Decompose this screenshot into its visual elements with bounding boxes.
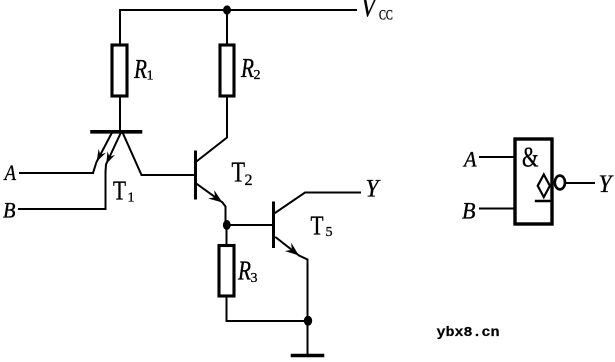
resistor R2 — [220, 45, 234, 96]
svg-text:V: V — [361, 0, 378, 23]
transistor T1 collector — [123, 134, 195, 176]
svg-text:R: R — [237, 256, 251, 286]
transistor T5 collector — [275, 193, 360, 214]
gate diamond underline — [536, 200, 551, 202]
svg-text:1: 1 — [128, 191, 135, 206]
svg-text:CC: CC — [379, 8, 393, 24]
transistor T1 emitter 1 — [93, 134, 112, 174]
svg-text:R: R — [133, 54, 147, 84]
svg-text:5: 5 — [326, 225, 333, 240]
svg-text:T: T — [232, 158, 246, 189]
resistor R3 — [219, 246, 234, 297]
wire R1 to T1 base — [119, 96, 121, 131]
svg-text:B: B — [462, 199, 476, 224]
svg-text:A: A — [462, 147, 477, 172]
svg-text:2: 2 — [254, 68, 261, 83]
wire gate output Y — [566, 182, 594, 184]
label T5 — [311, 211, 333, 241]
svg-text:B: B — [3, 197, 16, 222]
svg-text:1: 1 — [147, 69, 154, 84]
transistor T5 emitter — [276, 238, 308, 322]
wire junction to T5 base — [227, 224, 272, 226]
svg-text:T: T — [311, 211, 324, 241]
svg-text:A: A — [3, 160, 17, 185]
node junction bottom — [304, 316, 312, 326]
gate U1 NAND body — [515, 139, 552, 224]
svg-text:R: R — [240, 53, 254, 83]
node junction top — [223, 5, 231, 14]
label R2 — [240, 53, 260, 83]
wire R2 top lead — [226, 10, 228, 45]
svg-text:2: 2 — [245, 172, 253, 189]
wire gate input A — [480, 156, 513, 158]
transistor T1 base bar — [92, 130, 141, 134]
svg-text:T: T — [113, 176, 126, 206]
wire R3 bottom to ground rail — [227, 296, 309, 321]
label T1 — [113, 176, 135, 206]
transistor T1 emitter 2 — [106, 134, 121, 210]
svg-text:3: 3 — [251, 271, 258, 286]
resistor R1 — [112, 45, 127, 96]
wire gate input B — [480, 208, 513, 210]
transistor T2 base bar — [194, 152, 197, 198]
wire top rail Vcc — [120, 10, 356, 45]
label R3 — [237, 256, 257, 287]
svg-text:ybx8.cn: ybx8.cn — [437, 325, 500, 341]
transistor T5 base bar — [272, 203, 275, 247]
label R1 — [133, 54, 153, 84]
label Vcc — [361, 0, 393, 24]
ground — [307, 321, 309, 354]
wire input B — [19, 208, 106, 210]
label T2 — [232, 158, 253, 190]
wire junction to R3 — [226, 225, 228, 246]
svg-text:&: & — [522, 141, 539, 173]
transistor T2 emitter — [197, 184, 226, 221]
gate open-collector diamond — [538, 175, 550, 198]
wire input A — [20, 172, 93, 174]
node junction T2 emitter / R3 / T5 base — [223, 220, 231, 230]
gate inversion bubble — [555, 176, 565, 190]
wire R2 to T2 collector — [197, 96, 227, 161]
